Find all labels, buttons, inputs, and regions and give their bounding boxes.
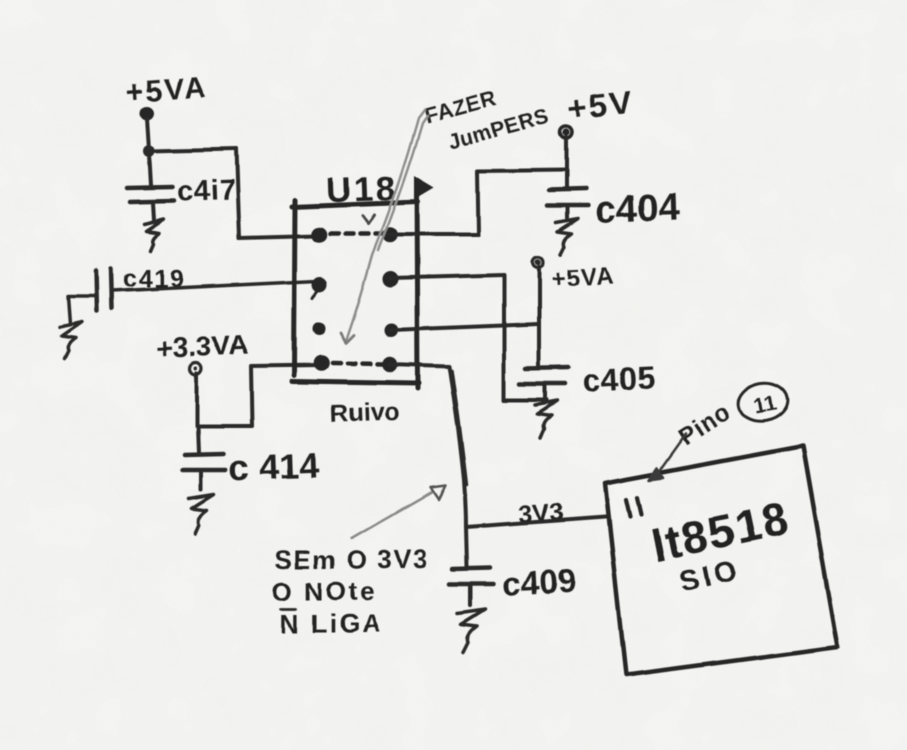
power +5VA (middle right) — [533, 257, 615, 293]
svg-text:11: 11 — [751, 390, 778, 419]
jumper dashes row1 — [330, 232, 382, 237]
chip U18 outline — [292, 184, 419, 388]
ground below C419 — [60, 322, 82, 359]
U18 pin row1 left — [311, 227, 327, 243]
wire +5VA down to junction — [147, 118, 149, 150]
wire 3V3 node to IT8518 pin 11 — [466, 517, 606, 527]
U18 pin row4 left — [313, 355, 329, 371]
capacitor C404 — [547, 170, 588, 217]
svg-text:c404: c404 — [594, 186, 680, 231]
wire junction right — [149, 149, 236, 151]
ground below C405 — [535, 401, 557, 438]
capacitor C419 — [96, 269, 112, 311]
ground below C414 — [189, 495, 214, 534]
annotation PINO 11 — [674, 379, 791, 452]
junction node — [143, 145, 155, 157]
svg-text:+5VA: +5VA — [550, 263, 614, 293]
svg-text:U18: U18 — [325, 169, 398, 210]
svg-text:c 414: c 414 — [228, 444, 319, 488]
pin-1 marker triangle — [414, 176, 434, 200]
wire junction left and down to row1 wire — [477, 170, 566, 235]
annotation SEM O 3V3 / O NOTE / N LIGA — [272, 544, 429, 639]
pencil arrowhead bottom — [341, 333, 354, 343]
chip IT8518 SIO — [605, 446, 838, 675]
svg-text:c4i7: c4i7 — [177, 174, 237, 208]
power +5V (top right) — [560, 84, 636, 138]
wire U18 row2 right to C405 ground node — [391, 275, 546, 400]
svg-text:+3.3VA: +3.3VA — [155, 329, 249, 365]
arrow annotation to 3V3 wire — [352, 485, 446, 538]
U18 pin row2 right — [383, 271, 399, 287]
jumper dashes row4 — [332, 363, 382, 364]
power +5VA (top left) — [125, 71, 209, 119]
power +3.3VA — [155, 329, 249, 375]
capacitor C409 — [450, 527, 493, 605]
U18 pin row1 right — [382, 227, 398, 243]
svg-text:+5VA: +5VA — [125, 71, 209, 110]
wire +5V down to junction — [564, 137, 568, 170]
svg-text:Ruivo: Ruivo — [330, 398, 400, 428]
U18 pin row4 right — [382, 356, 398, 372]
wire +5VA down to C405 — [537, 267, 541, 366]
wire U18 row1 right to +5V net — [390, 233, 478, 237]
svg-text:c409: c409 — [501, 562, 576, 603]
ground below C417 — [144, 219, 164, 251]
annotation FAZER JUMPERS — [421, 85, 552, 154]
pencil arrowhead mid — [362, 215, 374, 224]
wire +3.3VA to U18 row4 left pin — [197, 365, 321, 426]
U18 pin row3 left — [313, 323, 326, 336]
wire C419 to U18 row2 left pin — [112, 281, 317, 291]
capacitor C405 — [520, 368, 568, 400]
pin 11 ticks — [626, 498, 641, 517]
svg-text:c405: c405 — [581, 359, 656, 399]
pencil arrow through U18 — [346, 110, 427, 341]
U18 pin row2 left — [313, 277, 328, 292]
ground below C404 — [556, 218, 578, 254]
wire down segment — [236, 149, 239, 238]
U18 pin row3 right — [384, 323, 398, 337]
capacitor C417 — [127, 151, 174, 220]
capacitor C414 — [182, 426, 226, 490]
wire U18 row3 right to +5VA net — [391, 324, 539, 330]
svg-text:SEm O 3V3: SEm O 3V3 — [274, 544, 429, 574]
svg-text:+5V: +5V — [566, 84, 635, 128]
wire C419 left to ground — [68, 296, 96, 324]
arrow PINO to pin 11 — [649, 434, 686, 480]
wire U18 row4 right down to 3V3 node — [390, 364, 467, 527]
svg-text:N LiGA: N LiGA — [280, 609, 383, 639]
svg-text:O NOte: O NOte — [272, 576, 377, 606]
ground below C409 — [458, 609, 485, 652]
wire to U18 row1 left pin — [239, 236, 317, 238]
